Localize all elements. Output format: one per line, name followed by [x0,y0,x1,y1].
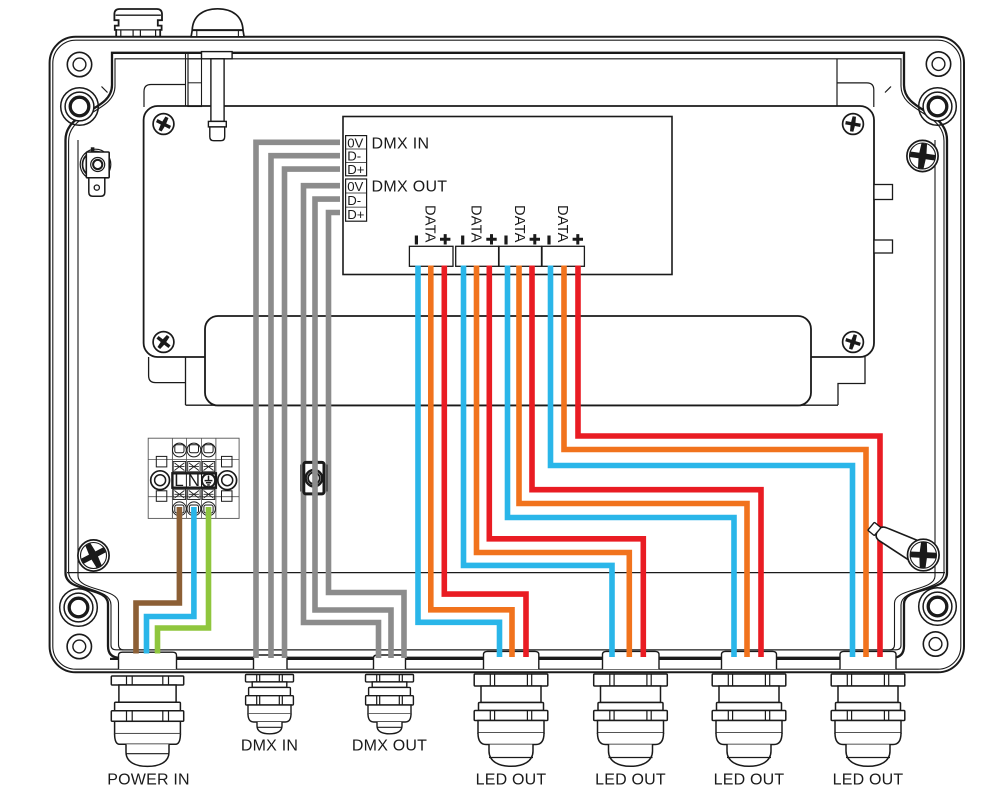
label DMX OUT [372,178,448,195]
corner boss bottom-left [64,593,93,659]
plate screw bottom-left [153,331,174,352]
lid screw bottom-right [908,539,940,571]
svg-text:LED OUT: LED OUT [595,771,666,788]
cable gland DMX OUT [366,675,414,734]
gland boss LED OUT 1 [484,651,539,669]
dome lens [191,9,244,37]
cable gland LED OUT 1 [474,674,548,766]
top vent plug [114,9,162,37]
wire DMX-IN D- (grey) [271,156,340,658]
label LED OUT 2 [595,771,666,788]
cable gland LED OUT 4 [831,674,905,766]
svg-text:L: L [174,471,183,490]
svg-text:LED OUT: LED OUT [476,771,547,788]
latch top-left [80,147,111,196]
terminal block DMX OUT (0V D- D+) [346,179,367,222]
wall corner tick top-right [885,87,891,93]
label LED OUT 4 [833,771,904,788]
floor lip line [122,649,890,651]
compartment divider line [67,572,945,574]
wire LED OUT 2 minus (cyan) [464,266,613,658]
wire mains live (brown) [136,507,179,654]
cable gland POWER IN [111,676,183,766]
inner wall (thick) [66,53,948,658]
svg-text:DATA: DATA [511,205,527,243]
plate top-right rib [836,59,838,107]
wire LED OUT 1 plus (red) [444,266,526,658]
svg-text:DMX OUT: DMX OUT [372,178,448,195]
plate left notch [149,357,186,405]
svg-text:DATA: DATA [421,205,437,243]
wire LED OUT 2 data (orange) [477,266,630,658]
corner boss top-left [65,52,94,121]
floor line [110,658,894,660]
wire mains neutral (blue) [147,507,194,654]
gland boss LED OUT 3 [722,651,777,669]
plate tab lower [874,240,893,253]
wire LED OUT 1 data (orange) [431,266,512,658]
cable gland LED OUT 2 [594,674,668,766]
corner boss outline top-right [919,88,957,126]
lid lip line right [889,140,935,650]
clamp arm bottom-right [864,517,921,561]
cable clamp on DMX bundle [301,462,327,494]
svg-text:D-: D- [347,193,361,208]
enclosure outer wall (outline A) [50,37,964,673]
plate screw top-left [153,114,174,135]
svg-text:D+: D+ [347,162,365,177]
plate screw bottom-right [843,332,864,353]
corner boss outline top-left [61,88,99,126]
terminal cover plate [205,316,811,406]
plate screw top-right [843,114,864,135]
PCB board [343,117,672,275]
svg-text:D+: D+ [347,207,365,222]
plate top-right tab [837,83,874,107]
svg-text:POWER IN: POWER IN [107,772,190,789]
corner boss outline bottom-right [919,588,957,626]
wire LED OUT 3 minus (cyan) [508,266,735,658]
connector DATA 3 with - DATA + labels [499,205,542,266]
wire LED OUT 4 minus (cyan) [551,266,853,658]
enclosure outer wall (outline B) [53,40,961,669]
svg-text:DATA: DATA [468,205,484,243]
corner boss bottom-right [923,592,952,656]
gland boss DMX OUT [374,655,406,669]
mounting plate [144,106,874,357]
svg-text:LED OUT: LED OUT [714,771,785,788]
gland boss LED OUT 4 [840,651,896,669]
drain tube [202,52,233,141]
wire LED OUT 3 data (orange) [519,266,747,658]
mounting rib [186,53,202,107]
plate right step [838,357,865,405]
connector DATA 1 with - DATA + labels [409,205,453,266]
wire LED OUT 4 plus (red) [578,266,880,658]
plate tab upper [874,185,893,200]
wire DMX-OUT D- (grey) [315,199,391,658]
wire DMX-OUT D- over clamp [312,460,318,496]
inner wall companion line [69,59,944,650]
wire DMX-IN 0V (grey) [256,142,340,658]
label DMX IN [372,135,430,152]
wire LED OUT 4 data (orange) [564,266,866,658]
plate top-left tab [144,85,186,108]
svg-text:LED OUT: LED OUT [833,771,904,788]
lid screw bottom-left [77,539,111,573]
svg-text:0V: 0V [347,179,363,194]
gland boss POWER IN [119,652,177,669]
wire DMX-OUT 0V (grey) [304,186,379,658]
wall corner tick top-left [102,87,108,93]
lower tray edge [186,404,839,406]
wire DMX-OUT D+ (grey) [329,213,405,659]
corner boss top-right [923,52,952,121]
terminal block DMX IN (0V D- D+) [346,135,367,177]
wire mains earth (green) [158,507,209,654]
cable gland DMX IN [246,675,294,734]
svg-text:N: N [188,471,200,490]
label DMX OUT (gland) [352,737,427,754]
label POWER IN [107,772,190,789]
svg-text:DMX IN: DMX IN [241,737,298,754]
svg-text:DATA: DATA [554,205,570,243]
lid lip line left [78,140,124,650]
wire LED OUT 1 minus (cyan) [418,266,500,658]
label LED OUT 1 [476,771,547,788]
power terminal block L N earth [148,438,239,518]
label LED OUT 3 [714,771,785,788]
svg-text:DMX IN: DMX IN [372,135,430,152]
corner boss outline bottom-left [60,589,98,627]
connector DATA 4 with - DATA + labels [542,205,584,266]
gland boss LED OUT 2 [603,651,660,669]
gland boss DMX IN [254,655,288,669]
wire LED OUT 2 plus (red) [489,266,643,658]
cable gland LED OUT 3 [712,674,786,766]
wire DMX-IN D+ (grey) [285,169,341,658]
connector DATA 2 with - DATA + labels [456,205,499,266]
wire LED OUT 3 plus (red) [532,266,761,658]
label DMX IN (gland) [241,737,298,754]
svg-text:DMX OUT: DMX OUT [352,737,427,754]
lid screw top-right [907,140,938,171]
